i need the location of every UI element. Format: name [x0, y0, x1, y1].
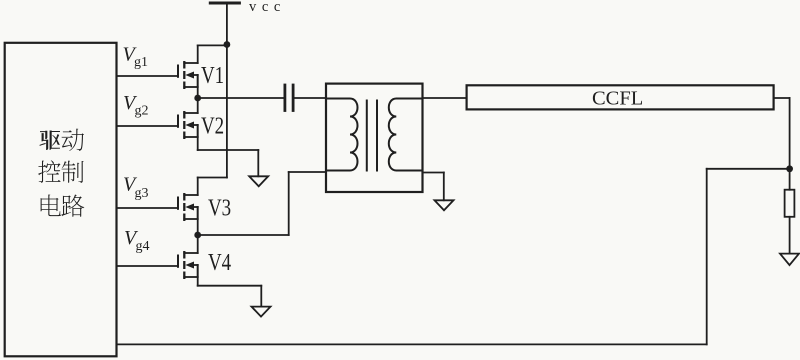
wire V4 source to ground: [198, 265, 262, 307]
transistor V4 gate wire: [117, 265, 178, 267]
wire VCC rail jog to V3 drain: [198, 178, 227, 196]
wire capacitor C1 to transformer T1 primary: [295, 97, 327, 99]
wire feedback node C to control box: [117, 169, 789, 345]
transistor V1: [178, 61, 198, 89]
resistor R1 (current sense): [785, 190, 795, 217]
junction node A (half-bridge midpoint): [194, 95, 201, 102]
label Vg4: [124, 227, 150, 254]
power VCC symbol: [210, 3, 239, 45]
CCFL lamp: [467, 85, 774, 109]
transistor V3: [178, 193, 198, 221]
ground (T1 secondary): [435, 200, 454, 210]
ground (V4 source): [252, 307, 271, 317]
junction node C (feedback tap): [786, 165, 793, 172]
transformer T1 primary winding: [326, 99, 358, 171]
wire T1 secondary bottom to ground: [423, 173, 444, 201]
svg-text:V2: V2: [201, 112, 224, 139]
junction node B (V3 source / V4 drain): [194, 232, 201, 239]
transistor V1 gate wire: [117, 75, 178, 77]
wire V1 drain to VCC: [198, 45, 227, 63]
wire V2 drain from node A: [197, 98, 199, 113]
svg-text:vcc: vcc: [249, 0, 286, 15]
transistor V2 gate wire: [117, 125, 178, 127]
wire VCC rail vertical: [226, 45, 228, 178]
wire node A to capacitor C1: [198, 97, 284, 99]
svg-text:V3: V3: [208, 194, 231, 221]
wire V1 source to midpoint node A: [197, 75, 199, 98]
wire V4 drain from node B: [197, 235, 199, 253]
svg-text:V1: V1: [201, 62, 224, 89]
wire resistor R1 to ground: [789, 217, 791, 254]
transistor V2: [178, 111, 198, 139]
wire T1 secondary to CCFL: [423, 97, 467, 99]
svg-text:g3: g3: [135, 186, 149, 201]
ground (R1): [780, 254, 799, 266]
label Vg1: [123, 43, 149, 70]
transformer T1 box: [326, 84, 423, 192]
wire node B to T1 primary return: [198, 172, 326, 235]
junction node VCC/V1 drain: [224, 41, 231, 48]
label Vg3: [123, 173, 149, 201]
transformer T1 secondary winding: [389, 99, 423, 171]
label Vg2: [123, 92, 149, 119]
label 驱动: [40, 129, 84, 151]
wire V2 source to ground: [198, 125, 259, 176]
wire node C to resistor R1: [789, 169, 791, 190]
transistor V4: [178, 251, 198, 279]
svg-text:g2: g2: [135, 104, 149, 119]
svg-text:CCFL: CCFL: [592, 88, 643, 110]
label 电路: [41, 194, 85, 216]
wire V3 source to node B: [197, 207, 199, 235]
svg-text:V4: V4: [208, 249, 231, 276]
wire CCFL right to node C: [774, 98, 790, 169]
transformer T1 core: [367, 101, 377, 171]
control circuit box U1 驱动控制电路: [5, 43, 117, 357]
transistor V3 gate wire: [117, 207, 178, 209]
svg-text:g4: g4: [136, 239, 150, 254]
capacitor C1 (DC blocking): [285, 85, 293, 111]
svg-text:g1: g1: [134, 55, 148, 70]
ground (V2 source): [249, 176, 268, 186]
label 控制: [38, 160, 83, 183]
